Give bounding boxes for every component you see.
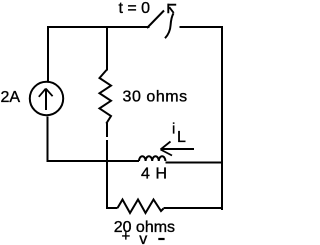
inductor L1 (4 H) coils bbox=[139, 156, 165, 161]
wire bottom right segment bbox=[164, 207, 223, 209]
wire middle vertical lower (below gap) bbox=[106, 140, 108, 209]
current source I1 arrow bbox=[45, 90, 47, 110]
switch S1 opening arrow (curved) bbox=[165, 13, 174, 38]
resistor R2 20 ohms zigzag bbox=[118, 200, 164, 214]
svg-text:+: + bbox=[122, 228, 131, 245]
label - bbox=[158, 238, 164, 240]
svg-text:4 H: 4 H bbox=[141, 166, 168, 183]
inductor current arrow iL bbox=[161, 148, 194, 150]
wire right vertical bbox=[221, 26, 223, 210]
wire middle horizontal right (inductor to right rail) bbox=[165, 162, 222, 164]
svg-text:t = 0: t = 0 bbox=[119, 0, 151, 17]
resistor R1 30 ohms zigzag bbox=[100, 70, 112, 124]
wire middle vertical mid (above gap) bbox=[106, 123, 108, 137]
wire middle vertical upper bbox=[106, 26, 108, 71]
svg-text:L: L bbox=[177, 129, 186, 146]
wire middle horizontal left (to inductor) bbox=[47, 160, 140, 162]
svg-text:2A: 2A bbox=[1, 89, 21, 106]
wire bottom left stub bbox=[106, 207, 118, 209]
wire left vertical lower bbox=[47, 117, 49, 163]
switch arrow head bbox=[167, 4, 176, 14]
current source I1 circle bbox=[30, 82, 63, 115]
svg-text:v: v bbox=[139, 231, 147, 245]
svg-text:30 ohms: 30 ohms bbox=[123, 89, 188, 106]
wire top right segment bbox=[180, 26, 224, 28]
switch S1 blade bbox=[147, 11, 164, 29]
wire top left segment bbox=[47, 26, 150, 28]
wire left vertical upper bbox=[47, 26, 49, 82]
svg-text:i: i bbox=[172, 121, 175, 138]
